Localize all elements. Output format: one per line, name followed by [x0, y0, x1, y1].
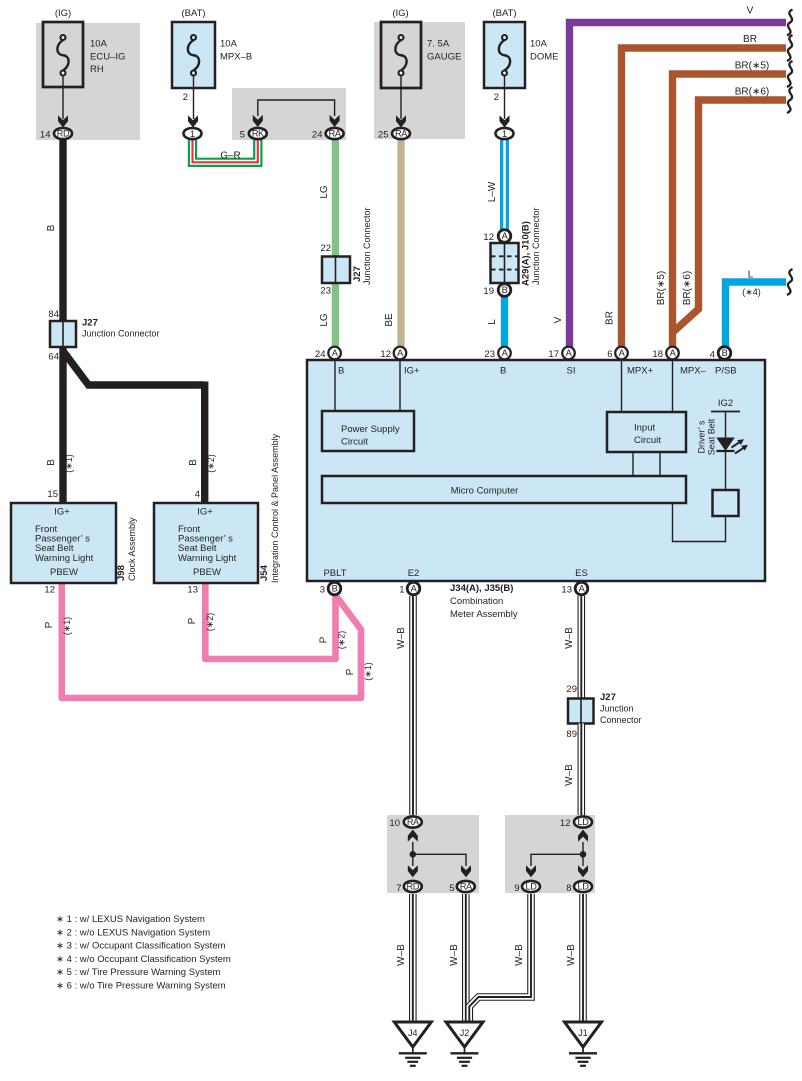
wire W-B 7 RD to J4 — [409, 894, 417, 1021]
svg-text:(∗1): (∗1) — [363, 662, 373, 681]
svg-text:2: 2 — [183, 92, 188, 103]
svg-text:L: L — [487, 319, 498, 325]
footnotes — [56, 914, 231, 992]
label P (*1) right — [345, 662, 373, 681]
svg-text:(IG): (IG) — [392, 8, 408, 19]
svg-text:Warning Light: Warning Light — [178, 553, 237, 564]
wire fuse1 to 14 RD — [62, 76, 64, 120]
wire V to terminal 17 A — [570, 23, 787, 348]
terminal 23 A — [484, 347, 510, 360]
junction connector A29(A) J10(B) — [491, 207, 542, 286]
svg-text:(IG): (IG) — [55, 8, 71, 19]
svg-text:ECU–IG: ECU–IG — [90, 51, 125, 62]
micro computer — [322, 476, 686, 503]
ground J1 — [565, 1022, 602, 1066]
svg-text:∗ 3 : w/ Occupant Classificati: ∗ 3 : w/ Occupant Classification System — [56, 941, 226, 952]
internal wire 6A to input circuit — [621, 361, 623, 412]
svg-text:Driver’ s: Driver’ s — [697, 420, 707, 453]
svg-text:W–B: W–B — [564, 627, 575, 649]
label P (*2) right — [319, 631, 347, 650]
svg-text:∗ 4 : w/o Occupant Classificat: ∗ 4 : w/o Occupant Classification System — [56, 954, 231, 965]
svg-text:Seat Belt: Seat Belt — [707, 418, 717, 455]
J54 Integration Control & Panel Assembly box — [154, 433, 280, 583]
wire BE from 25 RA to terminal 12 A — [397, 139, 404, 347]
svg-text:1: 1 — [399, 585, 404, 596]
svg-text:Junction: Junction — [600, 704, 634, 714]
svg-text:L–W: L–W — [487, 181, 498, 202]
terminal name labels — [338, 366, 737, 377]
svg-text:22: 22 — [320, 243, 331, 254]
svg-text:(∗2): (∗2) — [206, 454, 216, 473]
ground J4 — [394, 1022, 431, 1066]
terminal 24 A — [315, 347, 341, 360]
svg-text:J98: J98 — [116, 565, 127, 581]
svg-text:PBEW: PBEW — [193, 567, 221, 578]
terminal 1 A — [399, 582, 420, 595]
terminal 19 B — [483, 284, 510, 297]
svg-text:BR: BR — [605, 311, 616, 325]
connector background RA/RD bottom left — [387, 815, 479, 893]
junction connector J27 22/23 — [320, 207, 372, 296]
wire BR to terminal 6 A — [622, 48, 787, 347]
terminal 5 RK — [240, 128, 267, 141]
svg-text:B: B — [188, 459, 199, 466]
svg-text:4: 4 — [710, 350, 715, 361]
wire BR(*6) joining 18 A — [673, 100, 787, 333]
wire fuse4 to 1 — [504, 76, 506, 120]
svg-text:10A: 10A — [530, 39, 548, 50]
svg-text:LG: LG — [319, 313, 330, 327]
label driver's seat belt — [697, 418, 717, 455]
svg-text:P/SB: P/SB — [715, 366, 737, 377]
fuse GAUGE — [381, 8, 461, 88]
svg-text:23: 23 — [484, 349, 495, 360]
wire P(*1) from J98 12 to PBLT 3 B — [62, 583, 361, 698]
svg-text:3: 3 — [320, 585, 325, 596]
svg-text:PBLT: PBLT — [323, 568, 346, 579]
svg-text:BR(∗6): BR(∗6) — [735, 87, 770, 98]
bottom terminal labels — [323, 568, 587, 579]
wire G-R from fuse MPX-B to 5 RK — [193, 140, 258, 162]
svg-text:LD: LD — [578, 817, 590, 827]
svg-text:14: 14 — [40, 130, 51, 141]
terminal 1 DOME — [496, 128, 514, 140]
svg-text:P: P — [345, 668, 356, 675]
svg-text:∗ 1 : w/ LEXUS Navigation Syst: ∗ 1 : w/ LEXUS Navigation System — [56, 914, 205, 925]
svg-text:Circuit: Circuit — [341, 437, 368, 448]
svg-text:25: 25 — [378, 130, 389, 141]
svg-text:24: 24 — [312, 130, 323, 141]
svg-text:∗ 5 : w/ Tire Pressure Warning: ∗ 5 : w/ Tire Pressure Warning System — [56, 967, 220, 978]
wire fuse3 to 25 RA — [400, 76, 402, 120]
wire fuse2 to 1 — [193, 76, 195, 120]
fuse ECU-IG RH — [43, 8, 125, 87]
svg-text:J54: J54 — [259, 564, 270, 581]
svg-text:9: 9 — [514, 883, 519, 894]
terminal 8 LD — [566, 881, 592, 894]
terminal 9 LD — [514, 881, 540, 894]
svg-text:MPX–: MPX– — [680, 366, 707, 377]
terminal 4 B — [710, 347, 731, 361]
svg-text:7. 5A: 7. 5A — [427, 39, 450, 50]
jumper bracket 5 RK to 24 RA — [258, 100, 335, 116]
svg-text:84: 84 — [48, 309, 59, 320]
svg-text:W–B: W–B — [396, 627, 407, 649]
svg-text:Clock Assembly: Clock Assembly — [127, 517, 137, 581]
svg-text:5: 5 — [449, 883, 454, 894]
svg-text:IG+: IG+ — [54, 507, 70, 518]
svg-text:Circuit: Circuit — [634, 435, 661, 446]
svg-text:(∗2): (∗2) — [337, 631, 347, 650]
wire B from J27 node 64 to J98 and J54 — [59, 344, 66, 503]
svg-text:10A: 10A — [90, 39, 108, 50]
svg-text:B: B — [722, 348, 728, 358]
connector background LD bottom right — [505, 815, 595, 893]
svg-text:6: 6 — [607, 349, 612, 360]
wire P(*2) from J54 13 to PBLT 3 B — [205, 583, 335, 659]
label J34(A), J35(B) combination meter assembly — [450, 583, 518, 620]
wire W-B 9 LD jog to J2 — [469, 894, 531, 1021]
break squiggle V — [787, 10, 793, 36]
terminal 3 B — [320, 582, 341, 595]
wire W-B 8 LD to J1 — [579, 894, 587, 1021]
svg-text:W–B: W–B — [566, 944, 577, 966]
svg-text:Combination: Combination — [450, 596, 503, 607]
terminal 17 A — [548, 347, 574, 360]
jumper links bottom left — [410, 842, 467, 866]
input circuit — [607, 412, 686, 452]
wire micro computer to resistor — [673, 503, 726, 542]
terminal 24 RA — [312, 128, 344, 141]
svg-text:J27: J27 — [600, 692, 616, 703]
break squiggle L — [787, 269, 793, 295]
svg-text:1: 1 — [502, 129, 507, 140]
LED driver's seat belt — [716, 438, 748, 454]
svg-text:J4: J4 — [408, 1028, 418, 1038]
svg-text:RD: RD — [407, 882, 420, 892]
svg-text:IG+: IG+ — [404, 366, 420, 377]
junction connector J27 84/64 — [48, 309, 159, 363]
svg-text:GAUGE: GAUGE — [427, 51, 461, 62]
svg-text:P: P — [187, 617, 198, 624]
svg-text:BR(∗5): BR(∗5) — [656, 271, 667, 306]
ground J2 — [446, 1022, 483, 1066]
svg-text:RK: RK — [252, 129, 265, 139]
svg-text:DOME: DOME — [530, 51, 559, 62]
svg-text:23: 23 — [320, 286, 331, 297]
svg-text:RD: RD — [57, 129, 70, 139]
terminal 6 A — [607, 347, 628, 360]
wire B from fuse ECU-IG to J27 — [59, 139, 66, 325]
svg-text:Power Supply: Power Supply — [341, 424, 400, 435]
svg-text:J27: J27 — [82, 318, 98, 329]
svg-text:BR(∗6): BR(∗6) — [682, 271, 693, 306]
svg-text:LD: LD — [526, 882, 538, 892]
terminal 13 A — [561, 582, 587, 595]
svg-text:E2: E2 — [408, 568, 420, 579]
svg-text:V: V — [747, 6, 754, 17]
label B (*1) — [46, 454, 74, 473]
wire L from 19 B to terminal 23 A — [501, 296, 508, 347]
svg-text:15: 15 — [47, 489, 58, 500]
svg-text:Connector: Connector — [600, 715, 642, 725]
svg-text:Integration Control & Panel As: Integration Control & Panel Assembly — [270, 433, 280, 583]
terminal 25 RA — [378, 128, 410, 141]
svg-text:RA: RA — [329, 129, 342, 139]
svg-text:Micro Computer: Micro Computer — [451, 486, 519, 497]
arrow up into 12 LD — [578, 830, 588, 842]
svg-text:Junction Connector: Junction Connector — [82, 329, 160, 339]
terminal 10 RA — [389, 816, 421, 829]
svg-text:Junction Connector: Junction Connector — [362, 207, 372, 285]
svg-text:BR(∗5): BR(∗5) — [735, 61, 770, 72]
break squiggle BR(*6) — [787, 87, 793, 113]
svg-text:BR: BR — [743, 34, 757, 45]
terminal 14 RD — [40, 128, 72, 141]
svg-text:12: 12 — [560, 818, 571, 829]
svg-text:13: 13 — [187, 585, 198, 596]
svg-text:∗ 2 : w/o LEXUS Navigation Sys: ∗ 2 : w/o LEXUS Navigation System — [56, 927, 210, 938]
connector background RK/RA — [232, 88, 346, 140]
svg-text:W–B: W–B — [514, 944, 525, 966]
svg-text:MPX+: MPX+ — [627, 366, 654, 377]
svg-text:17: 17 — [548, 349, 559, 360]
fuse block background GAUGE — [374, 22, 465, 139]
internal wire 18A to input circuit — [672, 361, 674, 412]
svg-text:Warning Light: Warning Light — [35, 553, 94, 564]
wire L(*4) to terminal 4 B — [726, 282, 787, 347]
svg-text:Junction Connector: Junction Connector — [531, 207, 541, 285]
svg-text:10A: 10A — [220, 39, 238, 50]
label P (*2) left — [187, 613, 215, 632]
svg-text:IG2: IG2 — [718, 398, 733, 409]
svg-text:LG: LG — [319, 185, 330, 199]
jumper links bottom right — [531, 842, 586, 866]
label P (*1) left — [44, 617, 72, 636]
svg-text:RA: RA — [460, 882, 473, 892]
terminal 18 A — [652, 347, 678, 360]
wire LG from 24 RA to J27 — [332, 139, 339, 260]
svg-text:(∗4): (∗4) — [742, 287, 761, 297]
node IG2 — [711, 398, 740, 412]
label L (*4) — [742, 270, 761, 298]
wire BR(*5) to terminal 18 A — [673, 74, 787, 347]
svg-text:(∗1): (∗1) — [62, 617, 72, 636]
svg-text:L: L — [748, 270, 754, 281]
J98 Clock Assembly box — [11, 503, 137, 583]
svg-text:12: 12 — [44, 585, 55, 596]
svg-text:5: 5 — [240, 130, 245, 141]
svg-text:13: 13 — [561, 585, 572, 596]
combination meter assembly box J34/J35 — [307, 360, 765, 581]
wire W-B from E2 — [409, 596, 417, 815]
svg-text:J2: J2 — [460, 1028, 470, 1038]
terminal 5 RA — [449, 881, 475, 894]
svg-text:W–B: W–B — [564, 764, 575, 786]
fuse DOME — [484, 8, 559, 88]
svg-text:2: 2 — [494, 92, 499, 103]
break squiggle BR(*5) — [787, 61, 793, 87]
internal wires input circuit to micro computer — [632, 452, 634, 476]
power supply circuit — [322, 411, 414, 451]
svg-text:1: 1 — [190, 129, 195, 140]
svg-text:B: B — [332, 584, 338, 594]
terminal 7 RD — [396, 881, 422, 894]
svg-text:BE: BE — [384, 313, 395, 327]
svg-text:B: B — [46, 459, 57, 466]
svg-text:B: B — [500, 366, 506, 377]
svg-text:8: 8 — [566, 883, 571, 894]
svg-text:89: 89 — [566, 729, 577, 740]
svg-text:J1: J1 — [578, 1028, 588, 1038]
wire LED to resistor — [725, 451, 727, 490]
terminal 1 MPX-B — [184, 128, 202, 140]
svg-text:19: 19 — [483, 286, 494, 297]
svg-text:64: 64 — [48, 352, 59, 363]
svg-text:PBEW: PBEW — [50, 567, 78, 578]
resistor box — [713, 490, 739, 516]
svg-text:P: P — [44, 621, 55, 628]
svg-text:LD: LD — [578, 882, 590, 892]
wire W-B from ES to J27 — [577, 596, 585, 699]
wire W-B 5 RA to J2 — [462, 894, 470, 1021]
svg-text:G–R: G–R — [220, 151, 241, 162]
svg-text:29: 29 — [566, 684, 577, 695]
wire W-B from J27 89 — [577, 724, 585, 816]
wire LG from J27 to terminal 24 A — [332, 280, 339, 347]
svg-text:B: B — [46, 224, 57, 231]
svg-text:Input: Input — [634, 423, 655, 434]
label B (*2) — [188, 454, 216, 473]
svg-text:B: B — [502, 285, 508, 295]
svg-text:A29(A), J10(B): A29(A), J10(B) — [521, 221, 532, 286]
svg-text:12: 12 — [483, 232, 494, 243]
fuse MPX-B — [172, 8, 252, 88]
svg-text:(∗1): (∗1) — [64, 454, 74, 473]
svg-text:W–B: W–B — [449, 944, 460, 966]
svg-text:B: B — [338, 366, 344, 377]
internal wire 12A to power supply — [399, 361, 401, 411]
svg-text:12: 12 — [380, 349, 391, 360]
svg-text:ES: ES — [575, 568, 588, 579]
svg-text:IG+: IG+ — [197, 507, 213, 518]
svg-text:SI: SI — [567, 366, 576, 377]
svg-text:∗ 6 : w/o Tire Pressure Warnin: ∗ 6 : w/o Tire Pressure Warning System — [56, 981, 226, 992]
internal wire 24A to power supply — [334, 361, 336, 411]
svg-text:18: 18 — [652, 349, 663, 360]
wire IG2 to LED — [725, 412, 727, 439]
svg-text:RA: RA — [407, 817, 420, 827]
break squiggle BR — [787, 35, 793, 61]
arrow up into 10 RA — [408, 830, 418, 842]
svg-text:RH: RH — [90, 64, 104, 75]
svg-text:W–B: W–B — [396, 944, 407, 966]
svg-text:10: 10 — [389, 818, 400, 829]
fuse block background ECU-IG — [36, 23, 140, 140]
svg-text:MPX–B: MPX–B — [220, 51, 252, 62]
svg-text:(∗2): (∗2) — [205, 613, 215, 632]
svg-text:P: P — [319, 636, 330, 643]
svg-text:V: V — [553, 316, 564, 323]
svg-text:(BAT): (BAT) — [181, 8, 205, 19]
svg-text:RA: RA — [395, 129, 408, 139]
junction connector J27 29/89 — [566, 684, 641, 740]
svg-text:7: 7 — [396, 883, 401, 894]
terminal 12 A — [380, 347, 406, 360]
svg-text:4: 4 — [195, 489, 200, 500]
wire L-W from fuse DOME to 12 A — [500, 140, 509, 230]
svg-text:(BAT): (BAT) — [492, 8, 516, 19]
svg-text:J34(A), J35(B): J34(A), J35(B) — [450, 583, 513, 594]
terminal 12 LD — [560, 816, 592, 829]
svg-text:24: 24 — [315, 349, 326, 360]
terminal 12 A — [483, 230, 510, 243]
svg-text:Meter Assembly: Meter Assembly — [450, 609, 518, 620]
